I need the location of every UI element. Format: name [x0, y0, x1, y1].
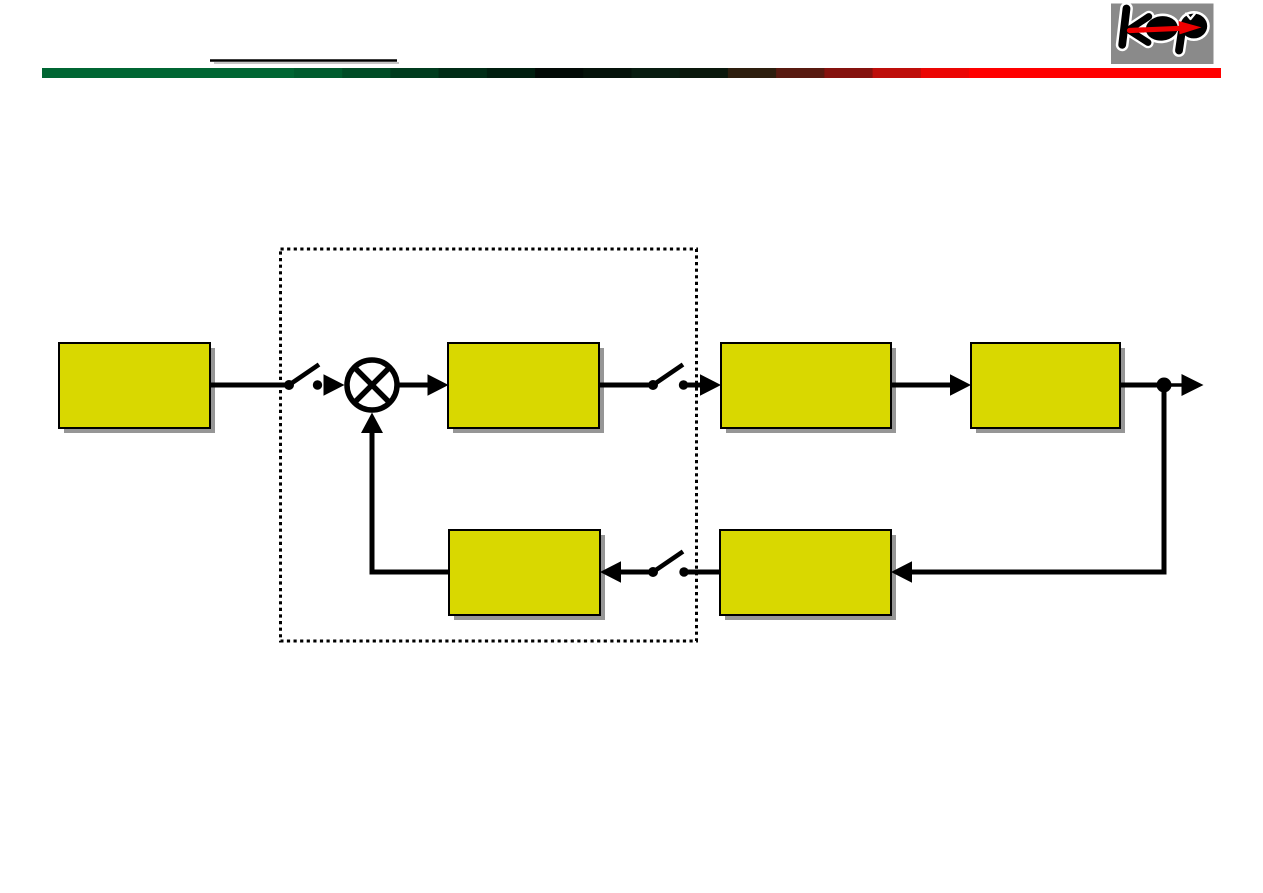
switch S1 (input sampler): terminal dot	[313, 380, 322, 389]
arrowhead into B4	[950, 374, 971, 396]
wire B1 to switch S1	[210, 383, 289, 388]
block B6 feedback outer (yellow box)	[720, 530, 896, 620]
title underline	[210, 59, 397, 62]
arrowhead into B2	[428, 374, 449, 396]
switch S1 (input sampler): pivot dot	[284, 380, 294, 390]
block B3 plant stage 1 (yellow box)	[721, 343, 896, 433]
wire B5 to feedback corner	[370, 570, 450, 575]
logo letters black	[1122, 9, 1207, 51]
logo red arrow	[1130, 21, 1202, 34]
switch S2 (output sampler): terminal dot	[679, 380, 688, 389]
title underline shadow	[214, 62, 399, 64]
arrowhead into summing junction	[324, 374, 345, 396]
logo letters white outline	[1122, 9, 1210, 51]
wire node to output arrowhead	[1164, 383, 1182, 387]
wire switch S3 to arrowhead	[620, 570, 653, 575]
switch S2 (output sampler): blade	[653, 365, 683, 386]
arrowhead into B5	[600, 561, 621, 583]
wire feedback horizontal to B6	[911, 570, 1167, 575]
block B5 feedback inner (yellow box)	[449, 530, 605, 620]
switch S1 (input sampler): blade	[289, 365, 319, 386]
switch S3 (feedback sampler): terminal dot	[679, 567, 688, 576]
summing junction (circle with X)	[347, 360, 397, 410]
output node junction dot	[1157, 378, 1172, 393]
arrowhead into B3	[700, 374, 721, 396]
switch S2 (output sampler): pivot dot	[648, 380, 658, 390]
wire B4 to output node	[1120, 383, 1164, 388]
output arrowhead	[1182, 374, 1204, 396]
block B4 plant stage 2 (yellow box)	[971, 343, 1125, 433]
block B1 input (yellow box)	[59, 343, 215, 433]
switch S3 (feedback sampler): pivot dot	[648, 567, 658, 577]
wire B6 to switch S3	[684, 570, 720, 575]
block B2 forward path (controller) (yellow box)	[448, 343, 604, 433]
switch S3 (feedback sampler): blade	[653, 552, 683, 573]
arrowhead into summing junction from below	[361, 413, 383, 434]
wire switch S2 to arrowhead	[684, 383, 702, 388]
wire summing junction to B2	[400, 383, 430, 388]
wire feedback vertical drop	[1162, 385, 1167, 575]
dotted boundary box (controller)	[281, 249, 697, 641]
wire B3 to B4	[891, 383, 951, 388]
wire B2 to switch S2	[599, 383, 650, 388]
header gradient bar	[42, 68, 1221, 78]
logo background box	[1111, 4, 1214, 65]
wire feedback vertical rise	[370, 432, 375, 575]
arrowhead into B6	[891, 561, 912, 583]
